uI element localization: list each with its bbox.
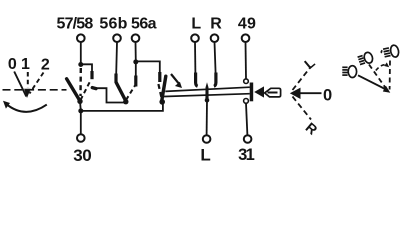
- shaft end contact bar: [250, 83, 254, 102]
- fixed contact stub 57/58 (position 2): [90, 71, 93, 79]
- headlight symbol position right (tilted): [380, 44, 399, 59]
- annotation arrow push direction: [171, 74, 182, 88]
- lever indicator apex arrowhead: [290, 88, 301, 99]
- pivot node switch S3: [159, 99, 165, 105]
- svg-text:0: 0: [323, 86, 332, 104]
- svg-text:1: 1: [21, 56, 30, 73]
- svg-text:R: R: [210, 15, 222, 32]
- wire 56a branch to flasher contact: [136, 61, 160, 72]
- lever shaft lower line: [161, 94, 250, 97]
- flasher indicator dashed line right: [389, 61, 391, 90]
- turn signal moving contact on shaft: [205, 82, 208, 100]
- rotary pointer position 1 (dashed line with arrowhead): [24, 72, 31, 98]
- terminal circle 30: [77, 134, 85, 142]
- svg-text:49: 49: [238, 15, 256, 32]
- wire 56b down: [115, 42, 118, 74]
- fixed contact stub 56a flasher: [158, 72, 161, 82]
- light switch S1 position 1 (dashed vertical): [79, 68, 82, 96]
- junction node on 56a wire: [133, 59, 138, 64]
- flasher switch S3 pulled position (dashed): [158, 84, 162, 100]
- headlight symbol low beam (horizontal): [342, 66, 356, 78]
- bus wire from S1 pivot to 30 and S3 pivot: [80, 101, 163, 111]
- svg-text:57/58: 57/58: [56, 15, 93, 32]
- svg-text:L: L: [200, 145, 210, 164]
- wire 49 down to flasher contact: [245, 42, 248, 79]
- dimmer switch S2 alternate position (dashed): [126, 86, 135, 101]
- junction node bus / terminal 30: [78, 108, 83, 113]
- terminal circle 49: [242, 34, 250, 42]
- contact tip feeding headlight selector: [92, 88, 96, 89]
- fixed contact stub R (turn signal right): [214, 42, 216, 86]
- terminal circle L bottom: [203, 135, 211, 143]
- wire from S1 contact to dimmer pivot: [93, 88, 125, 102]
- svg-text:30: 30: [73, 146, 91, 165]
- terminal circle 57/58: [77, 34, 85, 42]
- wire 56a down to junction: [135, 42, 137, 62]
- terminal circle R top: [211, 34, 219, 42]
- lever indicator position L line (dashed): [293, 67, 312, 91]
- hollow arrow pull symbol: [265, 88, 281, 97]
- terminal circle 56b: [113, 34, 121, 42]
- rotation arc with arrowhead: [3, 101, 47, 112]
- svg-text:0: 0: [8, 56, 17, 73]
- terminal circle 31: [244, 135, 252, 143]
- rotary axis dashed horizontal line: [3, 89, 67, 91]
- svg-text:L: L: [191, 15, 201, 32]
- rotary pointer position 2 (dashed line): [30, 73, 44, 94]
- headlight symbol position middle (tilted): [357, 51, 374, 66]
- flasher indicator dashed line middle: [369, 65, 386, 89]
- lever indicator position 0 line: [295, 92, 322, 94]
- terminal circle L top: [191, 34, 199, 42]
- svg-text:56a: 56a: [131, 15, 157, 32]
- dimmer switch S2 moving arm (solid): [116, 83, 125, 101]
- light switch S1 position 2 (dashed): [81, 81, 91, 101]
- terminal circle 56a: [132, 34, 140, 42]
- lever indicator position R line (dashed): [293, 97, 312, 120]
- light switch S1 moving arm (solid, rest position): [67, 79, 80, 101]
- fixed contact stub 56b: [114, 74, 117, 83]
- svg-text:56b: 56b: [99, 15, 127, 32]
- wire 57/58 down to junction: [80, 42, 82, 65]
- wire step to fixed contact of switch position 2: [81, 64, 92, 72]
- pivot node switch S2: [123, 99, 128, 104]
- wire down to terminal L bottom: [206, 100, 208, 135]
- fixed contact stub 56a: [135, 62, 137, 87]
- junction node on 57/58 wire: [78, 62, 83, 67]
- flasher contact circle lower (31): [244, 99, 249, 104]
- wire down to terminal 30: [80, 111, 82, 134]
- junction node below shaft: [205, 98, 210, 103]
- svg-text:2: 2: [41, 56, 50, 73]
- wire down to terminal 31: [246, 103, 247, 135]
- solid arrowhead pull direction: [254, 86, 264, 97]
- fixed contact stub L (turn signal left): [195, 42, 198, 86]
- flasher indicator solid line with arrowhead: [358, 75, 390, 93]
- pivot node switch S1: [77, 99, 82, 104]
- lever shaft upper line: [165, 87, 250, 91]
- rotary pointer position 0 (solid line): [14, 72, 26, 97]
- flasher indicator dashed arc with arrowhead: [376, 62, 389, 70]
- svg-text:31: 31: [238, 146, 255, 164]
- flasher switch S3 moving arm (solid): [162, 76, 166, 100]
- flasher contact circle upper (49): [244, 79, 249, 84]
